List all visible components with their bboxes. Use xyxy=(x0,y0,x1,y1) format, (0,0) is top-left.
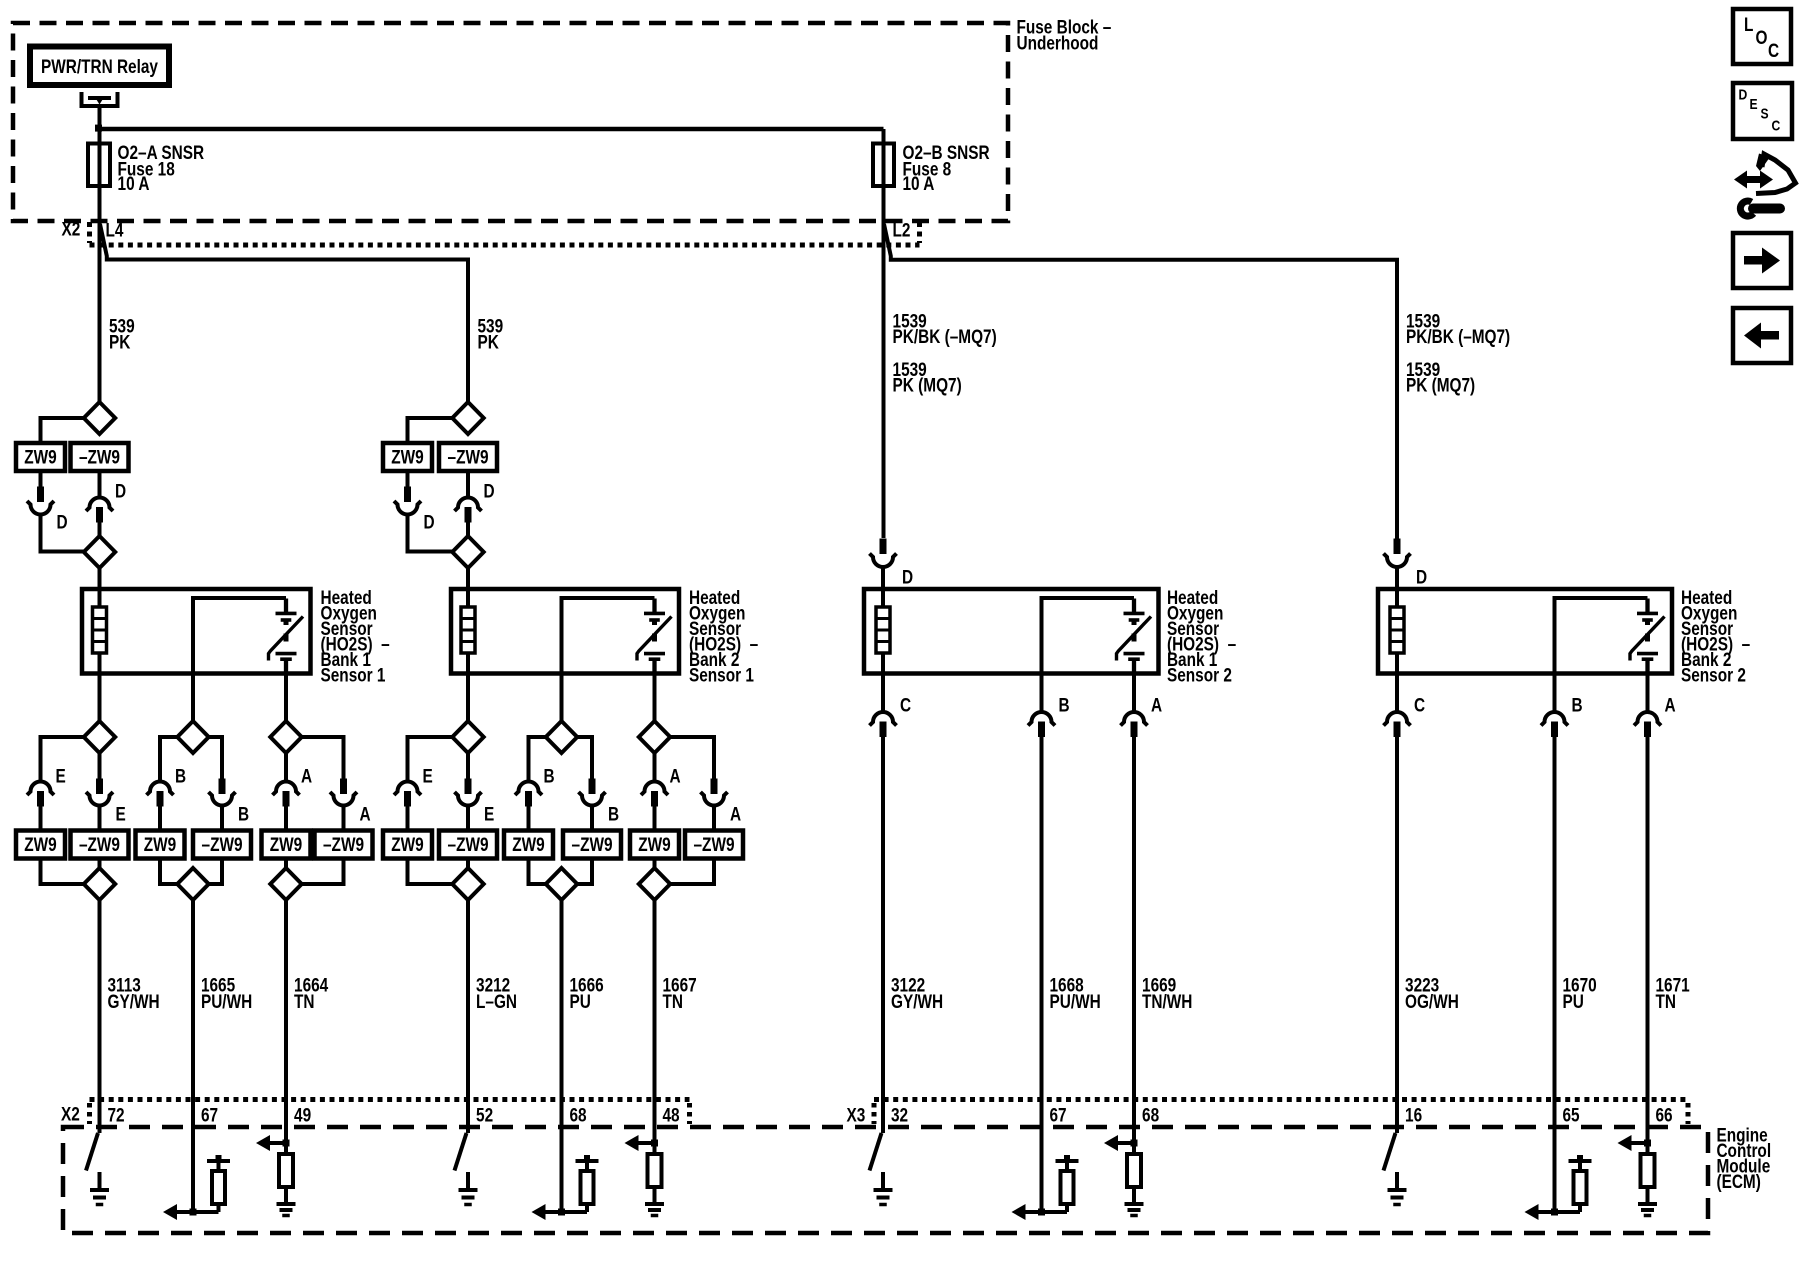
wire bulge right L2 xyxy=(209,737,222,779)
wire rejoin left L4 xyxy=(408,859,453,885)
svg-text:10 A: 10 A xyxy=(903,172,935,194)
terminal female cup G2 left, pin D xyxy=(394,501,421,515)
icon: DESC box xyxy=(1733,83,1792,139)
wire main into diamond L3 xyxy=(284,859,288,870)
terminal female dome G1 main, pin D xyxy=(98,471,102,496)
terminal male stub pin B xyxy=(1038,722,1045,738)
wire bulge left L5 xyxy=(529,737,546,780)
svg-text:Sensor 2: Sensor 2 xyxy=(1167,664,1232,686)
wire rejoin left L1 xyxy=(41,859,84,885)
splice diamond top L3 xyxy=(270,721,301,753)
wire bulge left L2 xyxy=(160,737,177,780)
svg-text:Sensor 2: Sensor 2 xyxy=(1681,664,1746,686)
svg-text:ZW9: ZW9 xyxy=(144,834,176,856)
svg-text:TN/WH: TN/WH xyxy=(1142,990,1192,1012)
svg-text:ZW9: ZW9 xyxy=(638,834,670,856)
splice diamond top L6 xyxy=(639,721,670,753)
svg-text:ZW9: ZW9 xyxy=(24,446,56,468)
wire: main feed bus to O2-B fuse xyxy=(100,127,884,132)
svg-text:66: 66 xyxy=(1655,1104,1672,1126)
harness junction -ZW9 L2 xyxy=(193,831,251,859)
svg-text:E: E xyxy=(484,803,494,825)
svg-text:PK/BK (–MQ7): PK/BK (–MQ7) xyxy=(1406,325,1510,347)
svg-text:L: L xyxy=(1744,13,1754,35)
wire: B1S1 signal to splice xyxy=(284,674,288,723)
harness junction -ZW9 L3 xyxy=(315,831,373,859)
wire: B1S1 mid to splice xyxy=(191,674,195,723)
internal wire B1S2 xyxy=(1042,598,1135,674)
svg-text:TN: TN xyxy=(1655,990,1675,1012)
svg-text:E: E xyxy=(1750,96,1758,112)
relay contact terminal symbol xyxy=(82,92,118,106)
terminal male stub pin B xyxy=(157,791,164,807)
sensor cell element B2S2 xyxy=(1645,599,1649,613)
ECM internal switch driver at pin 32 xyxy=(870,1133,882,1171)
terminal male stub pin D xyxy=(880,539,887,555)
splice diamond top L2 xyxy=(177,721,208,753)
terminal female dome pin A xyxy=(1634,712,1661,725)
ECM internal pull-up resistor at pin 67 xyxy=(1064,1155,1070,1161)
svg-text:ZW9: ZW9 xyxy=(270,834,302,856)
splice diamond top L5 xyxy=(546,721,577,753)
wire below cup G1 left xyxy=(41,514,84,552)
svg-text:–ZW9: –ZW9 xyxy=(572,834,613,856)
icon: connector end view tool xyxy=(1734,154,1796,217)
svg-text:–ZW9: –ZW9 xyxy=(448,446,489,468)
wire main into diamond L6 xyxy=(653,859,657,870)
connector X2 ECM left stub xyxy=(87,1103,92,1124)
svg-text:X3: X3 xyxy=(847,1104,866,1126)
ground symbol at pin 16 xyxy=(1395,1172,1399,1190)
svg-text:67: 67 xyxy=(1050,1104,1067,1126)
heater element B1S1 xyxy=(98,589,102,607)
svg-text:GY/WH: GY/WH xyxy=(891,990,943,1012)
svg-text:L–GN: L–GN xyxy=(476,990,517,1012)
svg-text:E: E xyxy=(55,765,65,787)
wire to other circuits at pin 67 xyxy=(1026,1210,1068,1214)
wire: relay output to junction xyxy=(98,104,102,129)
svg-text:C: C xyxy=(1768,39,1779,61)
wire bulge left L1 xyxy=(41,737,84,780)
svg-text:–ZW9: –ZW9 xyxy=(448,834,489,856)
terminal female dome pin B xyxy=(515,782,542,796)
wire to other circuits at pin 67 xyxy=(177,1210,219,1214)
svg-text:ZW9: ZW9 xyxy=(512,834,544,856)
harness junction -ZW9 G1 xyxy=(71,443,129,471)
wire: B2S1 mid to splice xyxy=(560,674,564,723)
wire rejoin right L2 xyxy=(209,859,222,885)
fuse F18 O2-A SNSR 10A xyxy=(88,144,110,187)
main branch L6 xyxy=(653,753,657,780)
ECM internal resistor at pin 66 xyxy=(1641,1154,1655,1187)
harness junction ZW9 G2 xyxy=(383,443,432,471)
connector X3 right stub xyxy=(1686,1103,1691,1124)
svg-text:32: 32 xyxy=(891,1104,908,1126)
wire+terminal male G1 left xyxy=(39,471,43,487)
fuse F8 O2-B SNSR 10A xyxy=(873,144,894,187)
svg-text:–ZW9: –ZW9 xyxy=(202,834,243,856)
wire: circuit 1666 PU down to ECM xyxy=(560,900,564,1212)
terminal female dome pin B xyxy=(147,782,174,796)
terminal male stub pin E xyxy=(404,791,411,807)
wire to other circuits at pin 68 xyxy=(546,1210,588,1214)
wire from HO2S to terminal A xyxy=(1646,674,1650,713)
svg-text:–ZW9: –ZW9 xyxy=(694,834,735,856)
svg-text:X2: X2 xyxy=(61,1103,80,1125)
ground symbol at pin 32 xyxy=(881,1172,885,1190)
ECM internal switch driver at pin 52 xyxy=(455,1133,467,1171)
terminal female cup pin E xyxy=(455,792,482,806)
terminal female dome pin E xyxy=(27,782,54,796)
ECM internal resistor at pin 48 xyxy=(648,1154,662,1187)
svg-text:65: 65 xyxy=(1562,1104,1579,1126)
splice diamond bottom L1 xyxy=(84,868,115,900)
terminal female dome pin A xyxy=(641,782,668,796)
splice diamond bottom L4 xyxy=(452,868,483,900)
icon: forward arrow box xyxy=(1733,233,1791,288)
harness junction -ZW9 L5 xyxy=(563,831,621,859)
harness junction -ZW9 L6 xyxy=(685,831,743,859)
HO2S component box B1S1 xyxy=(82,589,311,674)
wire: feed through O2-A SNSR fuse down to X2 pin L4 xyxy=(98,129,102,403)
ground symbol at pin 52 xyxy=(466,1172,470,1190)
wire: circuit 3113 GY/WH down to ECM xyxy=(98,900,102,1133)
Engine Control Module dashed enclosure xyxy=(63,1127,1708,1233)
terminal female cup pin A xyxy=(701,792,728,806)
harness junction ZW9 L2 xyxy=(136,831,185,859)
svg-text:48: 48 xyxy=(662,1104,679,1126)
ground symbol at pin 72 xyxy=(98,1172,102,1190)
terminal male stub pin A xyxy=(712,753,716,779)
svg-text:PU/WH: PU/WH xyxy=(1050,990,1101,1012)
svg-text:B: B xyxy=(175,765,186,787)
svg-text:D: D xyxy=(902,566,913,588)
wire into HO2S G1 xyxy=(98,568,102,590)
splice diamond bottom L2 xyxy=(177,868,208,900)
harness junction -ZW9 L1 xyxy=(71,831,129,859)
wire from HO2S to terminal B xyxy=(1553,674,1557,713)
svg-text:C: C xyxy=(1414,694,1425,716)
wire to other circuits at pin 48 xyxy=(639,1141,655,1145)
terminal female dome G2 main, pin D xyxy=(466,471,470,496)
svg-text:B: B xyxy=(238,803,249,825)
splice diamond top L4 xyxy=(452,721,483,753)
wire bulge right L5 xyxy=(577,737,592,779)
terminal male stub pin E xyxy=(98,753,102,779)
wire: 1539 branch from L2 to Bank2 Sensor2 drop xyxy=(884,224,1397,542)
wire to other circuits at pin 65 xyxy=(1539,1210,1581,1214)
svg-text:A: A xyxy=(1151,694,1163,716)
svg-text:Underhood: Underhood xyxy=(1016,32,1098,54)
terminal male stub pin A xyxy=(1644,722,1651,738)
wire: circuit 1664 TN down to ECM xyxy=(284,900,288,1154)
splice diamond top L1 xyxy=(84,721,115,753)
connector X2 ECM right stub xyxy=(687,1103,692,1124)
terminal female dome pin C xyxy=(870,712,897,726)
svg-text:D: D xyxy=(57,511,68,533)
wire rejoin right L6 xyxy=(670,859,714,885)
wire: circuit 1665 PU/WH down to ECM xyxy=(191,900,195,1212)
svg-text:D: D xyxy=(115,480,126,502)
svg-text:B: B xyxy=(1059,694,1070,716)
svg-text:E: E xyxy=(116,803,126,825)
connector X2 left stub xyxy=(87,222,92,243)
terminal male stub pin B xyxy=(220,753,224,779)
internal wire B1S1 xyxy=(193,598,286,674)
ECM internal resistor at pin 49 xyxy=(279,1154,293,1187)
wire rejoin left L2 xyxy=(160,859,177,885)
svg-text:10 A: 10 A xyxy=(118,172,150,194)
ECM internal pull-up resistor at pin 65 xyxy=(1577,1155,1583,1161)
wire from HO2S to terminal A xyxy=(1132,674,1136,713)
terminal male stub pin E xyxy=(37,791,44,807)
wire: feed through O2-B SNSR fuse down to X2 pin L2 xyxy=(882,129,886,538)
wire from HO2S to terminal C xyxy=(881,674,885,713)
svg-text:PK: PK xyxy=(109,331,131,353)
ECM internal switch driver at pin 72 xyxy=(86,1133,98,1171)
ground symbol inside ECM at pin 66 xyxy=(1638,1202,1657,1206)
svg-text:–ZW9: –ZW9 xyxy=(323,834,364,856)
svg-text:49: 49 xyxy=(294,1104,311,1126)
svg-text:–ZW9: –ZW9 xyxy=(79,834,120,856)
svg-text:C: C xyxy=(900,694,911,716)
harness junction ZW9 L1 xyxy=(16,831,65,859)
wire main into diamond L4 xyxy=(466,859,470,870)
terminal female cup pin E xyxy=(86,792,113,806)
terminal male stub pin A xyxy=(342,753,346,779)
HO2S component box B1S2 xyxy=(864,589,1159,674)
wire bulge left L4 xyxy=(408,737,453,780)
wire: B2S1 heater return to splice xyxy=(466,674,470,723)
svg-text:S: S xyxy=(1761,105,1769,121)
internal wire B2S2 xyxy=(1555,598,1648,674)
wire: circuit 3122 GY/WH down to ECM xyxy=(881,737,885,1133)
fuse block - underhood dashed enclosure xyxy=(13,23,1008,221)
terminal male stub pin B xyxy=(1551,722,1558,738)
harness junction ZW9 L6 xyxy=(630,831,679,859)
terminal male stub pin C xyxy=(880,722,887,738)
wire: circuit 3223 OG/WH down to ECM xyxy=(1395,737,1399,1133)
harness junction ZW9 L5 xyxy=(504,831,553,859)
terminal female dome pin A xyxy=(1121,712,1148,726)
splice diamond bottom L5 xyxy=(546,868,577,900)
harness junction ZW9 L4 xyxy=(383,831,432,859)
splice diamond upper G1 xyxy=(84,402,115,434)
terminal male stub pin E xyxy=(466,753,470,779)
wire: circuit 3212 L&#8211;GN down to ECM xyxy=(466,900,470,1133)
internal wire B2S1 xyxy=(562,598,655,674)
svg-text:PK/BK (–MQ7): PK/BK (–MQ7) xyxy=(893,325,997,347)
svg-text:D: D xyxy=(1739,86,1748,102)
svg-text:L4: L4 xyxy=(105,219,123,241)
splice diamond lower G1 xyxy=(84,536,115,568)
sensor cell element B1S1 xyxy=(284,599,288,613)
terminal male stub pin B xyxy=(525,791,532,807)
wire rejoin right L3 xyxy=(302,859,344,885)
svg-text:C: C xyxy=(1771,117,1780,133)
harness junction ZW9 L3 xyxy=(262,831,311,859)
svg-text:O: O xyxy=(1756,26,1768,48)
svg-text:(ECM): (ECM) xyxy=(1716,1170,1760,1192)
terminal male stub pin A xyxy=(651,791,658,807)
wire: circuit 1667 TN down to ECM xyxy=(653,900,657,1154)
svg-text:A: A xyxy=(1664,694,1676,716)
svg-text:52: 52 xyxy=(476,1104,493,1126)
terminal male stub pin D xyxy=(1394,539,1401,555)
junction node at fuse feed xyxy=(95,125,102,132)
icon: LOC box xyxy=(1733,9,1791,64)
svg-text:PK: PK xyxy=(477,331,499,353)
wire rejoin right L5 xyxy=(577,859,592,885)
terminal female cup G1 left, pin D xyxy=(27,501,54,515)
terminal female dome pin E xyxy=(394,782,421,796)
terminal female cup pin D xyxy=(1384,554,1411,568)
wire: bulge to ZW9 G1 xyxy=(41,418,84,443)
svg-text:A: A xyxy=(301,765,313,787)
svg-text:A: A xyxy=(359,803,371,825)
main branch L3 xyxy=(284,753,288,780)
terminal female dome pin B xyxy=(1028,712,1055,725)
svg-text:Sensor 1: Sensor 1 xyxy=(321,664,386,686)
wire: bulge to ZW9 G2 xyxy=(408,418,453,443)
terminal male stub pin A xyxy=(1131,722,1138,738)
svg-text:PU: PU xyxy=(570,990,591,1012)
svg-text:A: A xyxy=(669,765,681,787)
ground symbol inside ECM at pin 68 xyxy=(1125,1202,1144,1206)
icon: back arrow box xyxy=(1733,308,1791,363)
splice diamond lower G2 xyxy=(452,536,483,568)
terminal female cup pin D xyxy=(870,554,897,568)
terminal male stub G2 main xyxy=(465,507,472,523)
wire: B2S1 signal to splice xyxy=(653,674,657,723)
svg-text:OG/WH: OG/WH xyxy=(1405,990,1459,1012)
ECM internal switch driver at pin 16 xyxy=(1384,1133,1396,1171)
heater element B2S1 xyxy=(466,589,470,607)
terminal male stub pin B xyxy=(590,753,594,779)
svg-text:Sensor 1: Sensor 1 xyxy=(689,664,754,686)
wire: circuit 1669 TN/WH down to ECM xyxy=(1132,737,1136,1154)
connector X2 fuse block dotted line xyxy=(90,243,920,248)
terminal male stub pin C xyxy=(1394,722,1401,738)
svg-text:X2: X2 xyxy=(61,218,80,240)
wire rejoin left L5 xyxy=(529,859,546,885)
svg-text:PU: PU xyxy=(1562,990,1583,1012)
wire+terminal male G2 left xyxy=(406,471,410,487)
svg-text:72: 72 xyxy=(107,1104,124,1126)
connector X2 ECM dotted line xyxy=(90,1097,690,1102)
HO2S component box B2S2 xyxy=(1378,589,1672,674)
svg-text:ZW9: ZW9 xyxy=(391,834,423,856)
svg-text:A: A xyxy=(730,803,742,825)
sensor cell element B1S2 xyxy=(1132,599,1136,613)
splice diamond upper G2 xyxy=(452,402,483,434)
svg-text:B: B xyxy=(1571,694,1582,716)
connector X3 left stub xyxy=(872,1103,877,1124)
wire to other circuits at pin 68 xyxy=(1118,1141,1134,1145)
wire: circuit 1668 PU/WH down to ECM xyxy=(1040,737,1044,1212)
terminal male stub pin A xyxy=(283,791,290,807)
wire: circuit 1670 PU down to ECM xyxy=(1553,737,1557,1212)
terminal female cup pin A xyxy=(330,792,357,806)
wire into HO2S G2 xyxy=(466,568,470,590)
svg-text:D: D xyxy=(1416,566,1427,588)
wire below cup G2 left xyxy=(408,514,453,552)
svg-text:68: 68 xyxy=(570,1104,587,1126)
sensor cell element B2S1 xyxy=(652,599,656,613)
wire to other circuits at pin 49 xyxy=(270,1141,286,1145)
ECM internal pull-up resistor at pin 68 xyxy=(584,1155,590,1161)
terminal female cup pin B xyxy=(579,792,606,806)
terminal female dome pin B xyxy=(1541,712,1568,725)
svg-text:–ZW9: –ZW9 xyxy=(79,446,120,468)
svg-text:PK (MQ7): PK (MQ7) xyxy=(1406,374,1475,396)
harness junction -ZW9 G2 xyxy=(439,443,497,471)
ground symbol inside ECM at pin 48 xyxy=(645,1202,664,1206)
relay PWR/TRN Relay xyxy=(30,47,169,86)
harness junction -ZW9 L4 xyxy=(439,831,497,859)
wire main into diamond L1 xyxy=(98,859,102,870)
svg-text:PK (MQ7): PK (MQ7) xyxy=(893,374,962,396)
svg-text:D: D xyxy=(483,480,494,502)
svg-text:L2: L2 xyxy=(893,219,911,241)
ECM internal pull-up resistor at pin 67 xyxy=(216,1155,222,1161)
wire from HO2S to terminal C xyxy=(1395,674,1399,713)
svg-text:67: 67 xyxy=(201,1104,218,1126)
wire: 539 PK branch from L4 to Bank2 Sensor1 drop xyxy=(100,224,468,403)
terminal female dome pin C xyxy=(1384,712,1411,726)
terminal male stub G1 main xyxy=(96,507,103,523)
wire bulge right L3 xyxy=(302,737,344,779)
svg-text:ZW9: ZW9 xyxy=(391,446,423,468)
svg-text:TN: TN xyxy=(294,990,314,1012)
terminal female dome pin A xyxy=(273,782,300,796)
harness junction ZW9 G1 xyxy=(16,443,65,471)
heater element B1S2 xyxy=(881,589,885,607)
heater element B2S2 xyxy=(1395,589,1399,607)
wire bulge right L6 xyxy=(670,737,714,779)
svg-text:16: 16 xyxy=(1405,1104,1422,1126)
splice diamond bottom L3 xyxy=(270,868,301,900)
wire from HO2S to terminal B xyxy=(1040,674,1044,713)
wire: B1S1 heater return to splice xyxy=(98,674,102,723)
connector X2 right stub xyxy=(917,222,922,243)
connector X3 ECM dotted line xyxy=(874,1097,1688,1102)
svg-text:ZW9: ZW9 xyxy=(24,834,56,856)
svg-text:GY/WH: GY/WH xyxy=(107,990,159,1012)
svg-text:PWR/TRN Relay: PWR/TRN Relay xyxy=(41,55,158,77)
terminal female cup pin B xyxy=(209,792,236,806)
svg-text:68: 68 xyxy=(1142,1104,1159,1126)
svg-text:D: D xyxy=(423,511,434,533)
svg-text:E: E xyxy=(422,765,432,787)
splice diamond bottom L6 xyxy=(639,868,670,900)
ECM internal resistor at pin 68 xyxy=(1127,1154,1141,1187)
svg-text:PU/WH: PU/WH xyxy=(201,990,252,1012)
wire: circuit 1671 TN down to ECM xyxy=(1646,737,1650,1154)
svg-text:B: B xyxy=(544,765,555,787)
HO2S component box B2S1 xyxy=(451,589,679,674)
svg-text:B: B xyxy=(608,803,619,825)
ground symbol inside ECM at pin 49 xyxy=(277,1202,296,1206)
wire to other circuits at pin 66 xyxy=(1632,1141,1648,1145)
svg-text:TN: TN xyxy=(662,990,682,1012)
